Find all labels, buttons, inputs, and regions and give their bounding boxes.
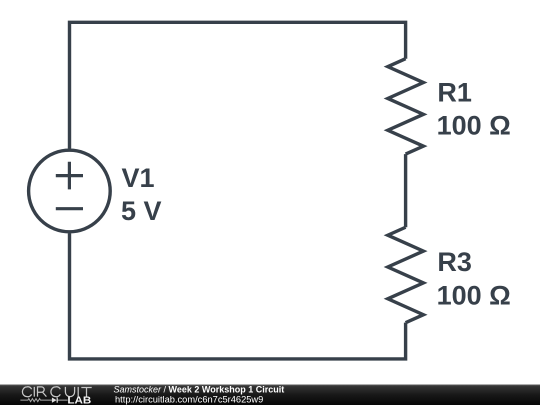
resistor R1 bbox=[388, 59, 424, 154]
logo wire bbox=[20, 399, 67, 402]
wire: R1 bottom to R3 top bbox=[404, 154, 407, 227]
svg-text:http://circuitlab.com/c6n7c5r4: http://circuitlab.com/c6n7c5r4625w9 bbox=[115, 395, 263, 405]
svg-text:R3: R3 bbox=[437, 247, 472, 277]
logo diode bbox=[52, 398, 57, 403]
footer bar bbox=[0, 385, 540, 405]
svg-text:V1: V1 bbox=[122, 163, 155, 193]
logo letter R bbox=[38, 387, 47, 397]
logo letter U bbox=[65, 387, 74, 397]
voltage source V1 bbox=[29, 150, 111, 232]
svg-text:5 V: 5 V bbox=[121, 196, 162, 226]
svg-text:100 Ω: 100 Ω bbox=[437, 111, 511, 141]
logo letter T bbox=[81, 387, 91, 396]
logo letter C bbox=[22, 387, 31, 397]
CircuitLab logo bbox=[20, 387, 91, 405]
svg-text:R1: R1 bbox=[437, 77, 472, 107]
svg-text:100 Ω: 100 Ω bbox=[437, 280, 511, 310]
logo letter I bbox=[33, 387, 35, 397]
wire: V1 top terminal, up left side, across top, down to R1 top bbox=[70, 22, 406, 148]
resistor R3 bbox=[388, 227, 424, 322]
logo letter C bbox=[51, 387, 60, 397]
logo letter I bbox=[77, 387, 79, 397]
svg-text:Samstocker / Week 2 Workshop 1: Samstocker / Week 2 Workshop 1 Circuit bbox=[114, 385, 285, 395]
svg-text:LAB: LAB bbox=[67, 395, 91, 405]
wire: R3 bottom, across bottom, up to V1 bottom terminal bbox=[70, 233, 406, 359]
